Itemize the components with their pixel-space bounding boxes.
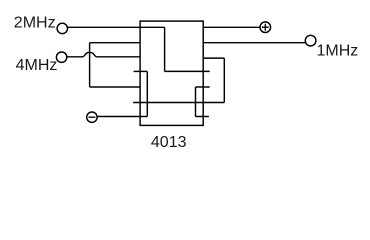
terminal 1MHz circle <box>305 35 316 46</box>
wire Q1-bar pin to feedback corner <box>90 42 141 44</box>
wire 2MHz net: terminal to inner vertical <box>68 26 165 28</box>
terminal 2MHz circle <box>57 23 67 33</box>
wire VSS minus terminal to tie-down <box>98 116 148 118</box>
wire RST1 pin stub <box>134 70 148 72</box>
power terminal V- minus circle <box>87 112 97 122</box>
terminal 4MHz circle <box>56 52 66 62</box>
wire D2 feedback vertical <box>223 58 225 102</box>
wire 4MHz net with hop over feedback vertical <box>67 56 83 58</box>
IC U1 4013 body <box>140 21 203 125</box>
plus sign <box>262 24 269 31</box>
wire SET2 stub from node A <box>196 116 209 118</box>
power terminal V+ plus circle <box>260 22 271 33</box>
minus sign <box>88 116 95 118</box>
svg-text:4013: 4013 <box>151 134 187 151</box>
wire 4MHz net after hop <box>96 56 140 58</box>
wire SET1 pin long route <box>133 102 224 104</box>
svg-text:4MHz: 4MHz <box>16 57 58 74</box>
wire D1 pin from feedback corner <box>90 86 141 88</box>
svg-text:2MHz: 2MHz <box>14 14 56 31</box>
wire RST1 tie-down vertical <box>146 71 148 116</box>
wire hop arc <box>83 52 96 56</box>
wire feedback vertical <box>89 43 91 87</box>
wire Q2-bar pin to feedback right <box>203 57 224 59</box>
wire Q2 pin to 1MHz terminal <box>203 42 305 44</box>
node A vertical <box>195 87 197 117</box>
svg-text:1MHz: 1MHz <box>317 42 359 59</box>
wire CLK2 route to right pin stub <box>165 70 210 72</box>
wire VDD pin to plus terminal <box>203 26 260 28</box>
wire CLK2 stub from node A <box>196 86 210 88</box>
wire 2MHz inner vertical drop <box>164 27 166 71</box>
